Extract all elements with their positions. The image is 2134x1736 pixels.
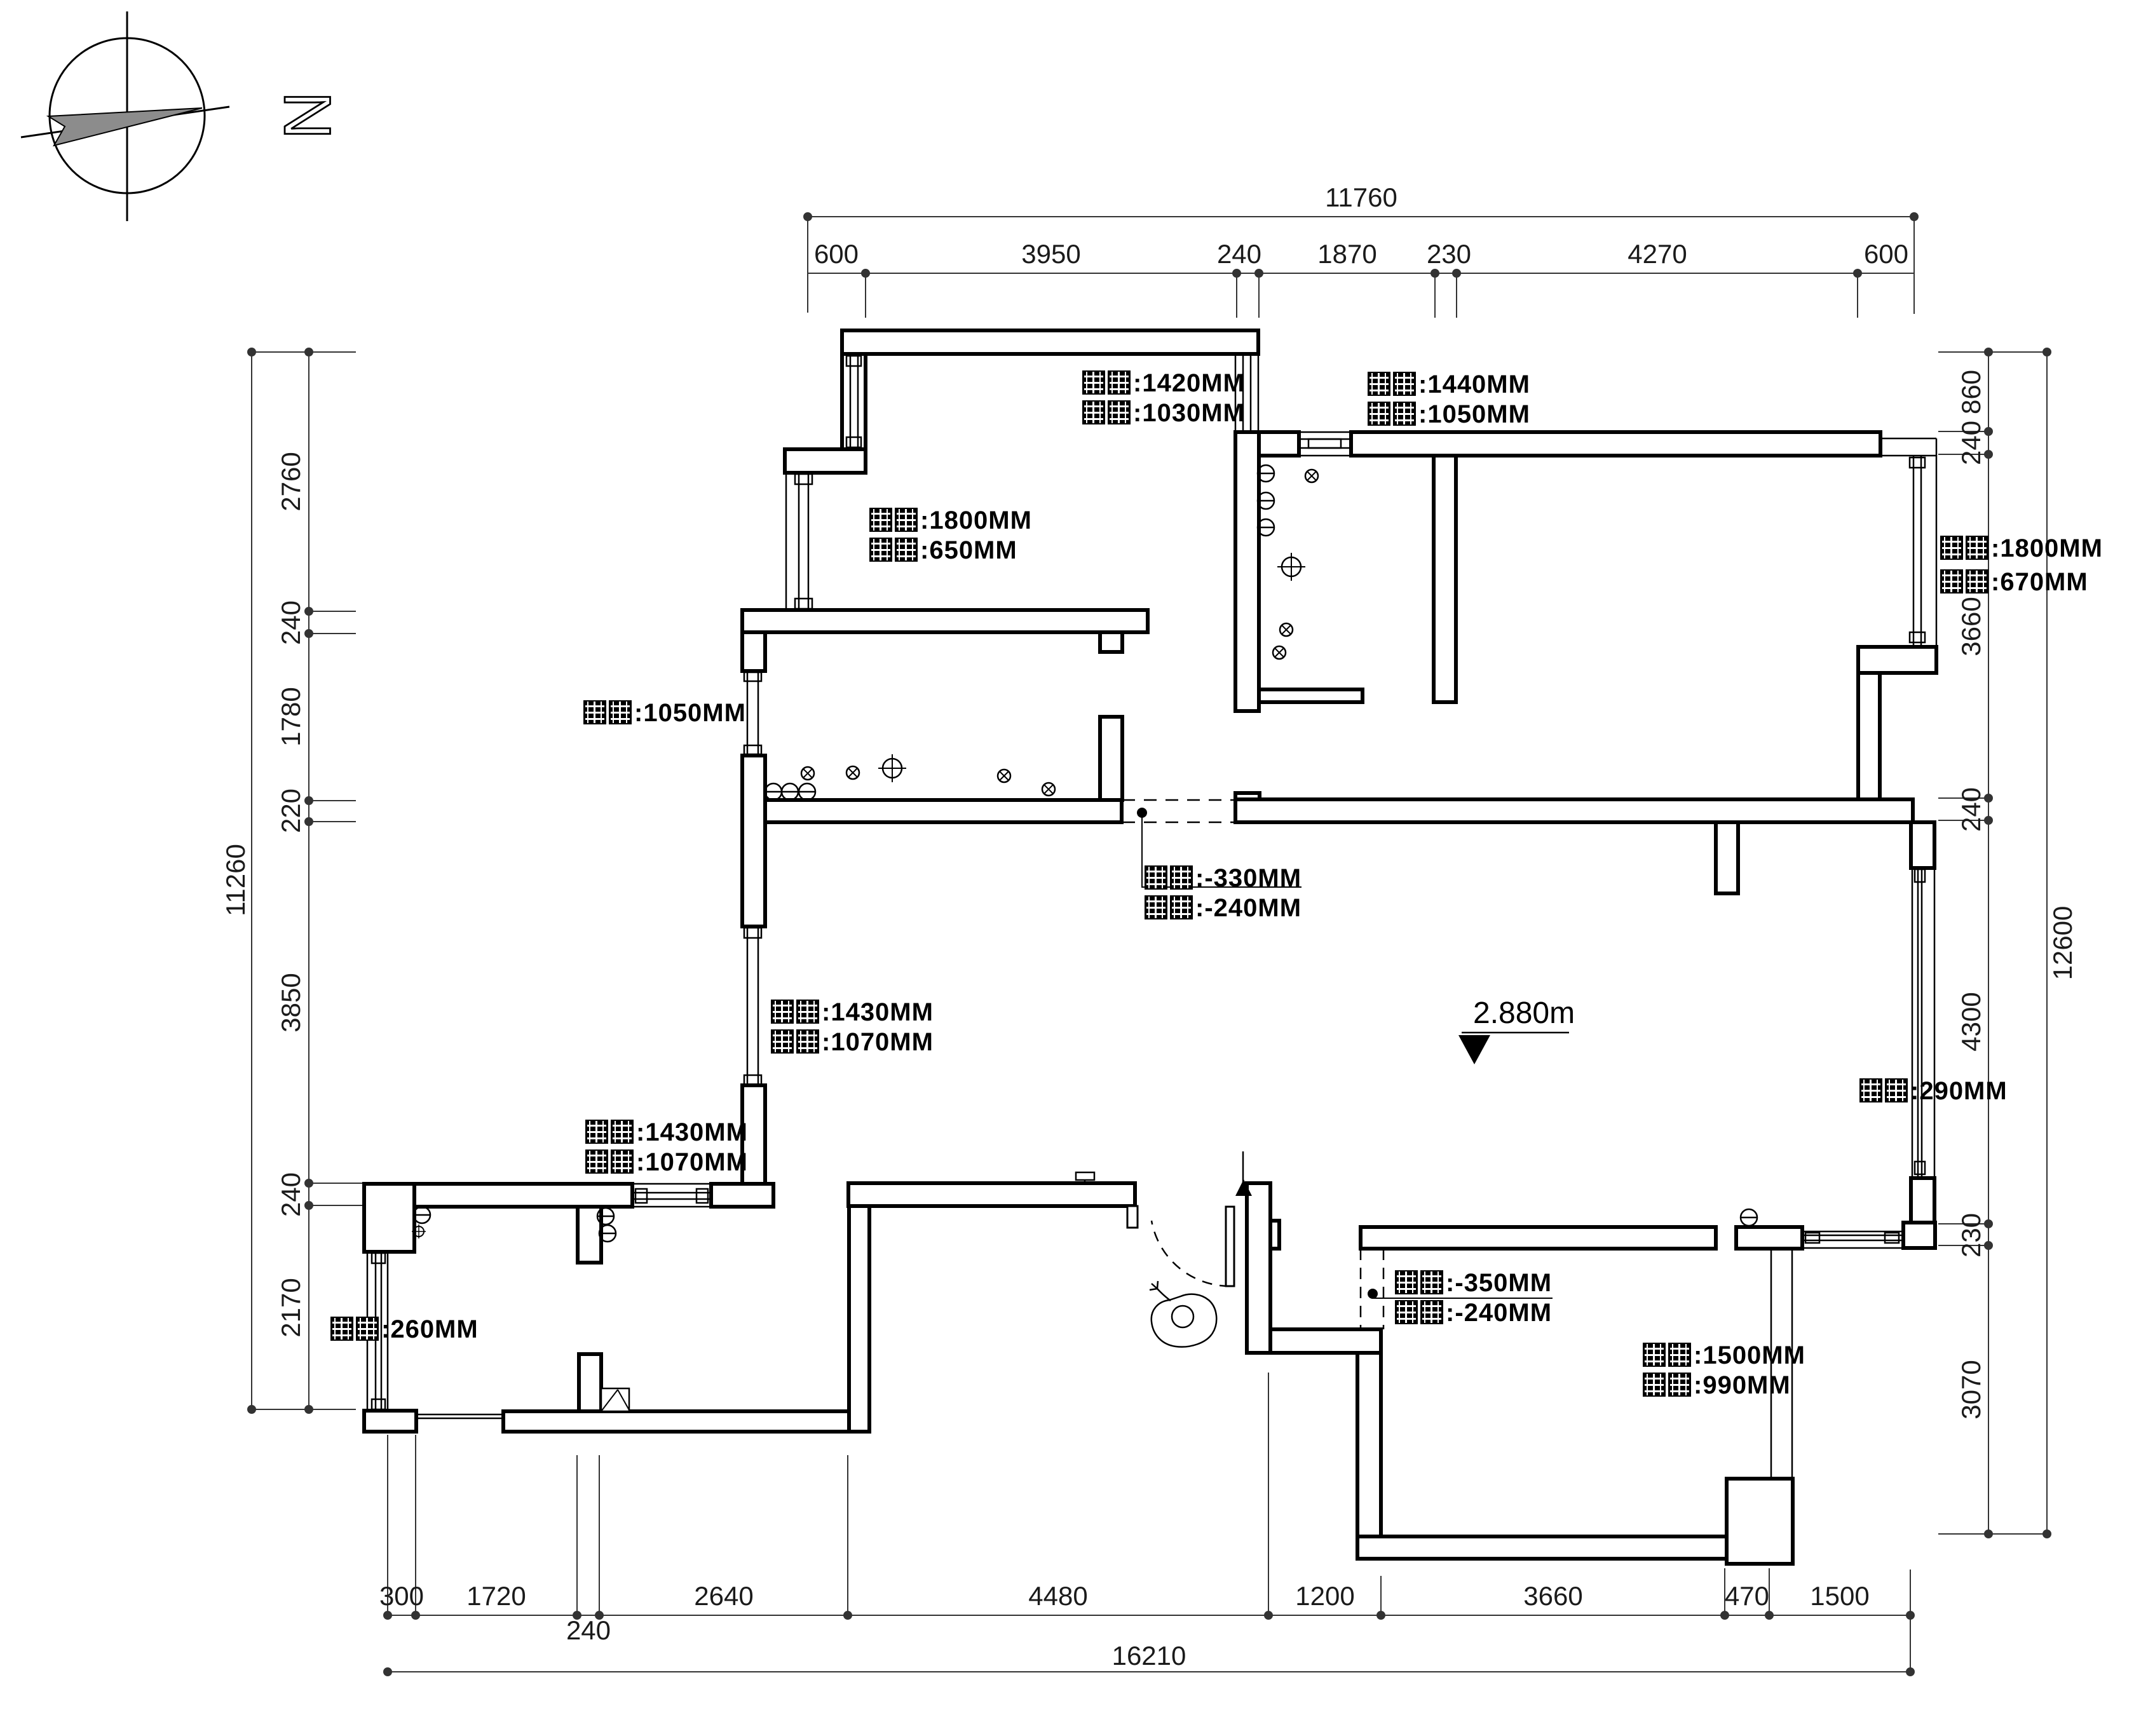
svg-text:240: 240 (1956, 421, 1986, 465)
svg-text:860: 860 (1956, 370, 1986, 414)
wall: master top west part (1361, 1227, 1716, 1249)
wall: entry east bump (1270, 1221, 1279, 1249)
svg-text::290MM: :290MM (1910, 1077, 2008, 1105)
label: beam 330/240 (1145, 864, 1301, 892)
entry marker triangle (1235, 1179, 1252, 1196)
dim labels right (1956, 370, 2077, 1420)
window: bedroom SW west (367, 1252, 369, 1411)
svg-text::1800MM: :1800MM (920, 506, 1032, 534)
window: master interior shaft (1770, 1249, 1772, 1479)
svg-text::1050MM: :1050MM (634, 699, 746, 727)
top overall dim line 11760 (808, 216, 1914, 217)
label: window sill 260 (330, 1315, 479, 1343)
svg-text::-330MM: :-330MM (1195, 864, 1301, 892)
svg-text:12600: 12600 (2048, 906, 2077, 980)
window: dining west (747, 671, 749, 756)
label: window sill 290 (1859, 1077, 2008, 1105)
entry door leaf (1226, 1207, 1234, 1286)
svg-text:240: 240 (566, 1615, 611, 1645)
symbols: bedroom SW (414, 1207, 430, 1223)
svg-text:11760: 11760 (1325, 182, 1397, 212)
label: window 1500/990 (1643, 1341, 1805, 1369)
right chain dim line (1988, 352, 1989, 1534)
svg-text::1420MM: :1420MM (1133, 369, 1245, 397)
wall: bedroom SW left lower block (364, 1411, 416, 1432)
compass vertical axis (126, 11, 128, 221)
svg-text:300: 300 (379, 1581, 424, 1611)
wall: bay step block (785, 449, 866, 473)
svg-text:600: 600 (814, 239, 859, 269)
svg-text:230: 230 (1956, 1213, 1986, 1258)
svg-text:4300: 4300 (1956, 992, 1986, 1051)
svg-text:2.880m: 2.880m (1473, 996, 1575, 1030)
person figure (1150, 1281, 1216, 1347)
beam 2 leader (1368, 1289, 1378, 1299)
label: window 1440/1050 (1368, 370, 1530, 398)
compass diagonal axis (21, 107, 229, 137)
svg-text:1720: 1720 (466, 1581, 526, 1611)
left chain dim line (308, 352, 309, 1409)
label: window 1430/1070 living west (771, 998, 934, 1026)
wall: bedroom SW stub upper (578, 1207, 601, 1263)
svg-text::-350MM: :-350MM (1446, 1269, 1552, 1297)
svg-text::1800MM: :1800MM (1991, 534, 2103, 562)
svg-text:220: 220 (276, 789, 306, 833)
svg-text::990MM: :990MM (1694, 1371, 1791, 1399)
wall: west wall mid block (742, 756, 765, 926)
wall: entry east (1247, 1183, 1270, 1353)
closet box bedroom SW (601, 1388, 629, 1411)
wall: hall L vertical (849, 1206, 869, 1432)
svg-text::650MM: :650MM (920, 536, 1017, 564)
svg-text:240: 240 (1217, 239, 1261, 269)
left overall dim line 11260 (251, 352, 252, 1409)
window: living west (747, 926, 749, 1085)
compass needle (48, 108, 202, 146)
wall: kitchen south (1259, 689, 1363, 702)
wall: study top (842, 330, 1258, 354)
compass (21, 11, 344, 221)
label: window 1800/650 (869, 506, 1032, 534)
window: kitchen-bedroom connector (1299, 432, 1351, 456)
svg-text:240: 240 (1956, 787, 1986, 832)
entry boundary thin line (1242, 1151, 1244, 1186)
wall: bedroom NE top (1351, 432, 1880, 456)
symbols: kitchen (1258, 465, 1274, 482)
svg-text:240: 240 (276, 1172, 306, 1217)
wall: master top east block (1903, 1223, 1935, 1248)
wall: bedroom SW top (364, 1184, 632, 1207)
svg-text:2760: 2760 (276, 452, 306, 511)
wall: east window jamb upper (1911, 822, 1934, 868)
wall: master SE block (1727, 1479, 1793, 1564)
svg-text::1070MM: :1070MM (822, 1028, 934, 1056)
dim labels left (221, 452, 306, 1337)
window: living east (1912, 868, 1913, 1178)
svg-text:3850: 3850 (276, 973, 306, 1032)
level marker 2.880m (1458, 996, 1575, 1064)
svg-text::1500MM: :1500MM (1694, 1341, 1805, 1369)
top chain dim line (808, 273, 1914, 274)
svg-text:4270: 4270 (1628, 239, 1687, 269)
window: study left wall (850, 356, 852, 447)
wall: entry south (1270, 1329, 1381, 1353)
svg-text::1070MM: :1070MM (636, 1148, 748, 1176)
wall: kitchen west (1235, 432, 1259, 711)
svg-text::1430MM: :1430MM (636, 1118, 748, 1146)
window: bay west of study (785, 473, 787, 610)
wall: master bottom (1357, 1536, 1727, 1559)
wall: west wall lower block (742, 1085, 765, 1184)
svg-text::1050MM: :1050MM (1418, 400, 1530, 428)
label: window 1430/1070 bedroom SW (585, 1118, 748, 1146)
wall: west wall dining upper (742, 632, 765, 671)
wall: study left (842, 354, 866, 449)
svg-text:3660: 3660 (1956, 597, 1986, 656)
window: bedroom NE east bay (1880, 438, 1936, 440)
window: bedroom SW north (632, 1183, 711, 1185)
wall: corridor north right segment (1235, 799, 1913, 822)
label: window 1420/1030 (1082, 369, 1245, 397)
label: window 1800/670 right (1940, 534, 2103, 562)
svg-text:16210: 16210 (1112, 1641, 1186, 1671)
wall: hall top (848, 1183, 1135, 1206)
bottom overall dim line 16210 (388, 1671, 1910, 1672)
wall: bedroom NE east (1858, 673, 1880, 800)
svg-text:2640: 2640 (694, 1581, 753, 1611)
window: bedroom SW south sill (416, 1414, 503, 1416)
right overall dim line 12600 (2046, 352, 2048, 1534)
symbols: master (1741, 1209, 1757, 1226)
wall: kitchen east T (1434, 456, 1456, 702)
window: study right wall (1235, 354, 1237, 432)
svg-text:1780: 1780 (276, 687, 306, 746)
wall: bedroom SW bottom (503, 1411, 849, 1432)
svg-text::1430MM: :1430MM (822, 998, 934, 1026)
svg-text:11260: 11260 (221, 844, 250, 916)
svg-text::1440MM: :1440MM (1418, 370, 1530, 398)
wall: master top east part (1736, 1227, 1802, 1249)
wall: east window jamb mid (1911, 1178, 1934, 1223)
wall: bedroom NE east block (1858, 647, 1936, 673)
entry door stop left (1127, 1206, 1138, 1228)
svg-text:230: 230 (1427, 239, 1471, 269)
wall: bedroom SW stub lower (579, 1354, 601, 1411)
wall: long wall between study and dining (742, 610, 1148, 632)
svg-text:1200: 1200 (1295, 1581, 1354, 1611)
wall: bedroom SW left upper block (364, 1184, 414, 1252)
wall: kitchen top (1259, 432, 1299, 456)
wall: dining east (1100, 717, 1122, 800)
svg-text:240: 240 (276, 600, 306, 645)
dim labels top (814, 182, 1908, 269)
wall: corridor north left segment (765, 800, 1122, 822)
wall: corridor north right step (1235, 793, 1260, 801)
svg-text::1030MM: :1030MM (1133, 399, 1245, 427)
wall: dining east stub (1100, 632, 1122, 652)
svg-text:470: 470 (1725, 1581, 1769, 1611)
compass circle (50, 38, 205, 193)
door stop T symbol (1076, 1172, 1094, 1180)
svg-text:N: N (270, 92, 344, 139)
dim labels bottom (379, 1581, 1870, 1671)
label: beam 350/240 (1395, 1269, 1552, 1297)
svg-text:600: 600 (1864, 239, 1908, 269)
bottom chain dim line (388, 1615, 1910, 1616)
beam 1 dashed (1122, 800, 1235, 822)
svg-text::260MM: :260MM (381, 1315, 479, 1343)
svg-text:1870: 1870 (1317, 239, 1376, 269)
svg-text::670MM: :670MM (1991, 568, 2088, 596)
beam 2 dashed (1361, 1249, 1383, 1329)
wall: bedroom SW top block (711, 1184, 773, 1207)
entry door swing arc (1152, 1221, 1230, 1286)
svg-text:3070: 3070 (1956, 1360, 1986, 1419)
wall: master west (1357, 1353, 1381, 1559)
wall: living pillar (1716, 822, 1738, 893)
svg-text::-240MM: :-240MM (1195, 894, 1301, 922)
window: master north (1802, 1231, 1903, 1233)
symbols: dining (765, 783, 782, 800)
svg-text:3950: 3950 (1021, 239, 1080, 269)
svg-text:1500: 1500 (1810, 1581, 1869, 1611)
svg-text:4480: 4480 (1028, 1581, 1087, 1611)
svg-text:2170: 2170 (276, 1278, 306, 1337)
beam 1 leader (1137, 808, 1147, 818)
label: window sill 1050 dining (583, 699, 746, 727)
svg-text::-240MM: :-240MM (1446, 1299, 1552, 1327)
svg-text:3660: 3660 (1523, 1581, 1582, 1611)
